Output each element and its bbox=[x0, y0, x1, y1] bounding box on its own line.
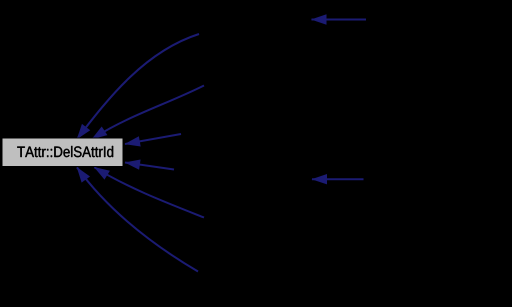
wire edge B (upper arc into node top) bbox=[92, 86, 204, 140]
wire detached arrow middle right bbox=[312, 178, 364, 180]
wire edge F (long bottom arc into node bottom) bbox=[77, 167, 198, 271]
wire edge E (lower arc into node bottom) bbox=[94, 167, 204, 217]
wire edge D (short line into node right, lower) bbox=[125, 163, 174, 170]
node TAttr::DelSAttrId bbox=[2, 138, 123, 167]
wire edge C (short line into node right, upper) bbox=[125, 134, 181, 144]
wire detached arrow top right bbox=[312, 19, 367, 21]
wire edge A (long top arc into node top) bbox=[77, 34, 199, 139]
